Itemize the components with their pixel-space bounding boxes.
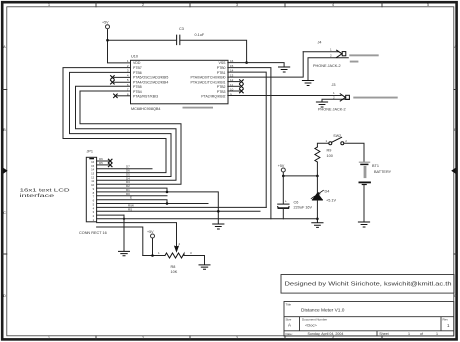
node junction R9/D4 <box>316 175 319 178</box>
ground JP1 p1 (triangle) <box>119 251 130 255</box>
svg-text:1: 1 <box>48 3 50 7</box>
svg-text:J4: J4 <box>318 41 322 45</box>
node junction +5V rail left <box>282 175 285 178</box>
wire JP1 p5 row <box>97 203 208 205</box>
wire chip p7 PTB4 nest inner <box>80 91 181 184</box>
svg-text:3: 3 <box>236 336 238 340</box>
svg-text:4: 4 <box>332 3 334 7</box>
no-connect X chip pin5 <box>114 81 131 83</box>
svg-text:BT1: BT1 <box>372 164 379 168</box>
svg-text:R8: R8 <box>171 265 176 269</box>
svg-text:1: 1 <box>48 336 50 340</box>
svg-text:10K: 10K <box>171 270 178 274</box>
no-connect X chip pin12 <box>228 81 240 83</box>
phone jack J4 tip bar <box>350 61 359 63</box>
wire chip p3 PTB6 nest <box>70 72 172 176</box>
power +5V symbol bottom <box>151 234 155 238</box>
wire chip p13 PTA0 to phone jack J4 <box>228 52 303 77</box>
svg-text:E: E <box>130 196 132 200</box>
resistor R8 zigzag (trimpot) <box>165 253 184 258</box>
svg-text:interface: interface <box>20 193 55 198</box>
wire VSS pin16 to ground <box>228 63 284 67</box>
phone jack J3 pin2 wire <box>322 99 349 101</box>
designed-by box <box>281 275 454 294</box>
wire VDD pin1 to +5V column <box>108 30 131 63</box>
title block row line 2 <box>284 330 454 332</box>
no-connect X chip pin10 <box>228 90 240 92</box>
svg-text:+5V: +5V <box>102 21 109 25</box>
svg-text:D5: D5 <box>99 161 103 165</box>
wire pot right lead <box>184 256 205 265</box>
wire +5V bottom drop <box>152 238 154 256</box>
power +5V symbol right section <box>281 168 285 172</box>
ground middle column <box>213 224 224 229</box>
svg-text:D4: D4 <box>325 190 330 194</box>
svg-text:1: 1 <box>436 332 438 336</box>
diode D4 cathode bar <box>313 199 323 201</box>
svg-text:<Doc>: <Doc> <box>305 323 317 328</box>
wire SW2 right to battery <box>344 143 364 161</box>
wire JP1 p16 stub <box>97 160 109 162</box>
svg-text:220uF 16V: 220uF 16V <box>294 205 313 209</box>
battery BT1 plate bottom long <box>359 181 370 183</box>
no-connect X chip pin11 <box>228 85 240 87</box>
svg-text:PTB6: PTB6 <box>133 71 142 75</box>
svg-text:12: 12 <box>230 78 234 82</box>
ground D4 rail <box>312 219 323 228</box>
svg-text:Size: Size <box>286 317 292 321</box>
svg-text:CONN RECT 16: CONN RECT 16 <box>79 231 107 235</box>
svg-text:PTA2/IRQ/KBI2: PTA2/IRQ/KBI2 <box>201 95 225 99</box>
svg-text:BATTERY: BATTERY <box>374 170 392 174</box>
resistor R9 zigzag <box>315 147 320 162</box>
phone jack J3 sleeve bar <box>353 97 397 99</box>
wire JP1 p4 row to chip PTB1 column <box>97 206 267 208</box>
border zone ticks bottom <box>96 336 382 339</box>
svg-text:PTB4: PTB4 <box>133 90 142 94</box>
svg-text:PTB2: PTB2 <box>217 85 226 89</box>
wire JP1 p2 row <box>97 214 124 216</box>
switch SW2 contact right <box>341 142 344 145</box>
border zone ticks top <box>96 3 382 7</box>
wire JP1 p9 jog <box>97 188 167 192</box>
svg-text:PTA3/RST/KBI3: PTA3/RST/KBI3 <box>133 95 158 99</box>
wire JP1 p15 stub <box>97 164 109 166</box>
border zone ticks right <box>454 90 457 255</box>
svg-text:11: 11 <box>230 83 233 87</box>
wire +5V rail to C3 <box>108 39 177 41</box>
ground VSS <box>279 67 290 72</box>
no-connect X JP1 p15 <box>108 163 112 167</box>
svg-text:PTB5: PTB5 <box>133 85 142 89</box>
wire JP1 p6 jog <box>97 200 167 204</box>
wire C6 to bottom rail <box>282 208 284 218</box>
svg-text:PTB7: PTB7 <box>133 66 142 70</box>
ground BT1 <box>358 222 369 227</box>
phone jack J4 symbol <box>337 50 342 57</box>
wire chip p6 PTB5 nest <box>76 86 177 180</box>
svg-text:1: 1 <box>408 332 410 336</box>
svg-text:2: 2 <box>142 3 144 7</box>
phone jack J4 pin1 wire <box>303 51 338 53</box>
svg-text:Date:: Date: <box>286 332 293 336</box>
wiper arrow R8 <box>175 246 179 251</box>
title block outer <box>284 302 454 337</box>
node junction C3/VSS <box>245 61 248 64</box>
phone jack J4 sleeve bar <box>349 54 378 56</box>
svg-text:VDD: VDD <box>133 61 141 65</box>
wire pot left lead <box>143 255 165 257</box>
title block divider date/sheet <box>376 331 378 336</box>
svg-text:+5V: +5V <box>278 164 285 168</box>
svg-text:14: 14 <box>230 69 234 73</box>
svg-text:10: 10 <box>230 88 234 92</box>
wire chip p9 PTA2/IRQ to phone jack J3 <box>228 95 341 97</box>
connector JP1 body <box>86 157 96 222</box>
wire +5V feed row <box>97 227 143 256</box>
node junction p3/ground column <box>217 210 220 213</box>
wire JP1 p3 row <box>97 210 260 212</box>
battery BT1 plate bottom short <box>362 184 366 186</box>
phone jack J3 symbol <box>340 94 345 101</box>
diode D4 triangle <box>313 193 322 199</box>
svg-text:D: D <box>454 294 457 298</box>
wire chip p15 PTB0 down right column <box>228 68 271 219</box>
wire D4 bottom to rail <box>316 200 318 219</box>
svg-text:C: C <box>3 211 6 215</box>
svg-text:0.1uF: 0.1uF <box>195 33 205 37</box>
wire battery to ground <box>363 185 365 222</box>
node junction p9/p8 <box>166 191 169 194</box>
svg-text:VSS: VSS <box>218 61 226 65</box>
border zone ticks left <box>3 90 7 255</box>
no-connect X chip pin8 <box>117 95 131 97</box>
node junction +5V/pot <box>151 254 154 257</box>
battery BT1 plate top long (gray) <box>359 161 369 163</box>
node junction p6/p5 <box>166 202 169 205</box>
svg-text:PTB0: PTB0 <box>217 66 226 70</box>
svg-text:PTB1: PTB1 <box>217 71 226 75</box>
wire JP1 p8 row to ground column <box>97 192 219 224</box>
svg-text:PHONE JACK-2: PHONE JACK-2 <box>318 108 346 112</box>
svg-text:13: 13 <box>230 73 234 77</box>
svg-text:PTA0/AD0/TCH0/KBI0: PTA0/AD0/TCH0/KBI0 <box>191 76 226 80</box>
wire chip p2 PTB7 nest outer <box>63 68 166 173</box>
ground J3 <box>316 102 327 107</box>
diode D4 arrow <box>317 190 323 194</box>
title block divider rev <box>440 317 442 331</box>
chip label underline bar <box>183 107 214 109</box>
svg-text:C3: C3 <box>179 27 184 31</box>
svg-text:A: A <box>288 323 291 328</box>
wire chip p14 PTB1 down right column <box>228 72 266 207</box>
svg-text:R9: R9 <box>327 149 332 153</box>
svg-text:C6: C6 <box>294 201 299 205</box>
svg-text:PTA5/OSC1/AD3/KBI5: PTA5/OSC1/AD3/KBI5 <box>133 76 168 80</box>
switch SW2 lever <box>332 137 342 142</box>
svg-text:MC68HC908QB4: MC68HC908QB4 <box>131 107 161 111</box>
border midpoint arrow left <box>3 168 7 174</box>
svg-text:3: 3 <box>236 3 238 7</box>
svg-text:Sheet: Sheet <box>379 332 388 336</box>
battery BT1 plate top short <box>361 163 368 165</box>
no-connect X JP1 p16 <box>108 159 112 163</box>
svg-text:PTA1/AD1/TCH1/KBI1: PTA1/AD1/TCH1/KBI1 <box>191 80 226 84</box>
svg-text:Rev: Rev <box>443 317 449 321</box>
svg-text:5: 5 <box>427 3 429 7</box>
wire +5V to rail <box>282 172 284 176</box>
node junction +5V/VDD <box>106 39 109 42</box>
wire C6 branch down <box>282 176 284 204</box>
power +5V symbol top <box>106 25 110 29</box>
svg-text:of: of <box>420 332 423 336</box>
svg-text:16: 16 <box>230 59 234 63</box>
svg-text:PHONE JACK-2: PHONE JACK-2 <box>313 64 341 68</box>
phone jack J4 pin2 wire <box>308 58 348 80</box>
wire D4 top <box>316 176 318 194</box>
svg-text:JP1: JP1 <box>87 150 94 154</box>
op-amp U10 body (microcontroller box) <box>131 60 229 104</box>
capacitor C6 plate bottom <box>278 207 289 209</box>
ground J4 <box>302 81 313 86</box>
title block row line 1 <box>284 316 454 318</box>
ground R8 (triangle) <box>199 265 210 269</box>
border midpoint arrow right <box>451 168 455 174</box>
svg-text:100: 100 <box>327 154 333 158</box>
svg-text:U10: U10 <box>131 55 138 59</box>
svg-text:+5.1V: +5.1V <box>326 199 336 203</box>
wire contrast VO row to pot wiper <box>97 223 177 247</box>
no-connect X chip pin4 <box>114 76 131 78</box>
capacitor C6 plate top <box>278 203 289 205</box>
switch SW2 contact left <box>329 142 332 145</box>
wire JP1 p14 row <box>97 168 152 170</box>
svg-text:J3: J3 <box>332 83 336 87</box>
svg-text:15: 15 <box>230 64 234 68</box>
svg-text:PTA4/OSC2/AD2/KBI4: PTA4/OSC2/AD2/KBI4 <box>133 80 168 84</box>
battery BT1 body bar <box>364 166 367 178</box>
svg-text:2: 2 <box>142 336 144 340</box>
svg-text:PTB3: PTB3 <box>217 90 226 94</box>
svg-text:Distance Meter V1.0: Distance Meter V1.0 <box>301 308 345 314</box>
svg-text:Sunday, April 04, 2004: Sunday, April 04, 2004 <box>308 332 344 336</box>
svg-text:Title: Title <box>286 303 292 307</box>
svg-text:SW2: SW2 <box>333 134 341 138</box>
svg-text:D: D <box>3 294 6 298</box>
wire SW2 left to R9 top <box>317 143 328 147</box>
svg-text:16x1 text LCD: 16x1 text LCD <box>20 187 71 192</box>
node junction rail/D4 <box>316 218 319 221</box>
capacitor C3 <box>177 35 180 44</box>
svg-text:4: 4 <box>332 336 334 340</box>
svg-text:Document Number: Document Number <box>302 317 327 321</box>
svg-text:+5V: +5V <box>147 230 154 234</box>
wire JP1 p7 row <box>97 195 167 197</box>
diode D4 arrow 2 <box>311 196 314 198</box>
wire C3 right to VSS column <box>180 40 246 62</box>
svg-text:RS: RS <box>128 207 132 211</box>
svg-text:+: + <box>285 200 287 204</box>
node junction rail/LCD ground <box>123 218 125 220</box>
wire JP1 p1 to ground <box>97 215 318 251</box>
wire +5V rail to R9 bottom <box>283 175 317 177</box>
title block divider size/doc <box>299 317 301 331</box>
svg-text:Designed by Wichit Sirichote,: Designed by Wichit Sirichote, kswichit@k… <box>285 281 452 287</box>
